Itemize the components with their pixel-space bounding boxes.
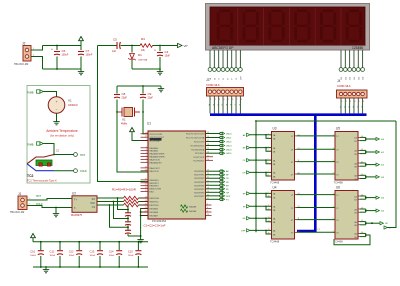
svg-text:37: 37 bbox=[145, 184, 147, 186]
wire U6 output pair bbox=[360, 232, 366, 234]
svg-text:24: 24 bbox=[207, 152, 209, 154]
wire caps to ground rail bbox=[128, 235, 141, 237]
svg-text:C9: C9 bbox=[148, 92, 152, 96]
svg-text:11: 11 bbox=[298, 160, 300, 162]
svg-text:28: 28 bbox=[207, 187, 209, 189]
svg-text:C1=C2=C3=1nF: C1=C2=C3=1nF bbox=[144, 224, 166, 228]
svg-text:100nF: 100nF bbox=[69, 255, 75, 257]
svg-text:(for emulation only): (for emulation only) bbox=[50, 133, 74, 137]
svg-text:25: 25 bbox=[207, 155, 209, 157]
wire input split bbox=[250, 229, 272, 231]
svg-text:HOT: HOT bbox=[36, 196, 41, 198]
svg-text:15: 15 bbox=[145, 190, 147, 192]
svg-text:100nF: 100nF bbox=[50, 255, 56, 257]
svg-text:10: 10 bbox=[361, 174, 363, 176]
svg-text:24: 24 bbox=[145, 200, 147, 202]
svg-text:J2: J2 bbox=[22, 42, 26, 46]
wire top rail drivers bbox=[256, 120, 396, 122]
capacitor C13 bbox=[99, 242, 101, 250]
wire J1 to U2 T- bbox=[27, 206, 72, 208]
svg-text:TC4468: TC4468 bbox=[270, 180, 280, 184]
svg-text:10: 10 bbox=[361, 232, 363, 234]
svg-text:7: 7 bbox=[268, 171, 269, 173]
svg-text:7: 7 bbox=[146, 161, 147, 163]
svg-text:C5: C5 bbox=[113, 38, 117, 42]
svg-text:16: 16 bbox=[207, 136, 209, 138]
svg-text:14: 14 bbox=[298, 193, 300, 195]
svg-text:RB1/INT1: RB1/INT1 bbox=[150, 183, 160, 185]
svg-text:X1: X1 bbox=[122, 118, 126, 122]
svg-text:22pF: 22pF bbox=[148, 97, 154, 100]
decoupling rail top bbox=[33, 241, 148, 243]
svg-text:36: 36 bbox=[145, 181, 147, 183]
ground bottom bbox=[80, 69, 82, 72]
svg-text:27: 27 bbox=[145, 211, 147, 213]
svg-text:J4: J4 bbox=[337, 79, 341, 83]
wire bottom rail bbox=[43, 68, 82, 70]
svg-text:UP: UP bbox=[385, 223, 389, 225]
svg-text:U6: U6 bbox=[336, 186, 340, 190]
svg-text:RC4/SDI/SDA: RC4/SDI/SDA bbox=[191, 149, 205, 152]
ground decoupling bbox=[45, 266, 47, 268]
wire loop c2 bbox=[114, 202, 129, 219]
capacitor C1 bbox=[127, 206, 129, 213]
wire TAMB to V1 bbox=[43, 92, 56, 97]
svg-text:LED1: LED1 bbox=[226, 138, 232, 140]
power arrow top bbox=[80, 41, 82, 46]
U1 left pins bbox=[141, 132, 167, 217]
capacitor C15 bbox=[137, 242, 139, 250]
capacitor C12 bbox=[78, 242, 80, 250]
wire driver out to driver in bbox=[297, 207, 336, 209]
capacitor C10 bbox=[40, 242, 42, 250]
wire U5 output pair bbox=[360, 136, 366, 138]
svg-text:29: 29 bbox=[207, 191, 209, 193]
wire R1 to U1 bbox=[139, 197, 149, 199]
wire input split bbox=[250, 159, 272, 161]
svg-text:J3: J3 bbox=[206, 78, 210, 82]
svg-text:2: 2 bbox=[146, 146, 147, 148]
svg-text:TC4468: TC4468 bbox=[270, 239, 280, 243]
wire driver input rail bbox=[255, 121, 257, 232]
svg-text:27: 27 bbox=[207, 184, 209, 186]
wire U1 lower-left pins bbox=[141, 209, 148, 238]
thermocouple TC2 bbox=[27, 155, 57, 183]
svg-text:30: 30 bbox=[207, 194, 209, 196]
svg-text:RD5/PSP5: RD5/PSP5 bbox=[194, 189, 205, 191]
svg-text:14: 14 bbox=[145, 136, 147, 138]
svg-text:100nF: 100nF bbox=[86, 54, 93, 57]
capacitor C2 bbox=[127, 216, 129, 221]
svg-text:MCLR/Vpp: MCLR/Vpp bbox=[150, 141, 161, 143]
svg-text:RB7/PGD: RB7/PGD bbox=[150, 205, 160, 207]
svg-text:1N4733A: 1N4733A bbox=[138, 58, 148, 61]
svg-text:TC4469: TC4469 bbox=[334, 239, 344, 243]
svg-text:3: 3 bbox=[332, 148, 333, 150]
svg-text:RA0/AN0: RA0/AN0 bbox=[150, 147, 160, 150]
wire R3 to U1 bbox=[139, 204, 149, 206]
svg-text:11: 11 bbox=[361, 220, 363, 222]
wire input split bbox=[250, 192, 272, 194]
svg-text:35: 35 bbox=[145, 178, 147, 180]
svg-text:C12: C12 bbox=[69, 249, 74, 253]
wire X1 left leg to U1 bbox=[117, 112, 148, 172]
capacitor C7 bbox=[80, 46, 82, 51]
U1 internal glyph bbox=[181, 205, 197, 213]
svg-text:C10: C10 bbox=[30, 249, 35, 253]
svg-text:RD4/PSP4: RD4/PSP4 bbox=[194, 185, 205, 187]
svg-text:T+: T+ bbox=[74, 197, 78, 201]
svg-text:RA5/AN4/SS: RA5/AN4/SS bbox=[150, 161, 163, 164]
svg-text:RD1/PSP1: RD1/PSP1 bbox=[194, 175, 205, 177]
wire crystal top rail bbox=[117, 85, 161, 87]
svg-text:DPF: DPF bbox=[226, 196, 231, 198]
wire U2 SCK to R2 bbox=[97, 201, 124, 203]
svg-text:18: 18 bbox=[207, 144, 209, 146]
svg-text:MAX6675: MAX6675 bbox=[71, 214, 83, 217]
IC U3 TC4468 bbox=[270, 127, 295, 185]
svg-text:15: 15 bbox=[207, 132, 209, 134]
svg-text:14: 14 bbox=[361, 195, 363, 197]
resistor R1 bbox=[124, 196, 139, 200]
svg-text:RA1/AN1: RA1/AN1 bbox=[150, 150, 160, 153]
svg-text:11: 11 bbox=[361, 162, 363, 164]
svg-text:17: 17 bbox=[207, 140, 209, 142]
svg-text:RE0/AN5: RE0/AN5 bbox=[150, 208, 160, 211]
svg-text:RA7/CLKI: RA7/CLKI bbox=[150, 170, 160, 173]
wire input split bbox=[250, 147, 272, 149]
decoupling rail bottom bbox=[33, 266, 148, 268]
wire driver out to driver in bbox=[297, 219, 336, 221]
svg-text:RA3/AN3/VREF+: RA3/AN3/VREF+ bbox=[150, 156, 167, 159]
svg-text:21: 21 bbox=[207, 177, 209, 179]
display DS1 6-digit 7-segment bbox=[206, 4, 370, 51]
svg-text:RD7/PSP7: RD7/PSP7 bbox=[194, 196, 205, 198]
svg-text:38: 38 bbox=[145, 187, 147, 189]
svg-text:TC4468: TC4468 bbox=[334, 180, 344, 184]
svg-text:SO: SO bbox=[92, 199, 96, 201]
svg-text:LED2: LED2 bbox=[226, 142, 232, 144]
svg-text:5: 5 bbox=[268, 159, 269, 161]
resistor R2 bbox=[124, 200, 139, 204]
wire top rail bbox=[43, 45, 82, 47]
svg-text:TC2 Thermocouple Type K: TC2 Thermocouple Type K bbox=[27, 180, 57, 183]
svg-text:22: 22 bbox=[207, 180, 209, 182]
svg-text:LED5: LED5 bbox=[226, 153, 232, 155]
svg-text:RD2/PSP2: RD2/PSP2 bbox=[194, 178, 205, 180]
svg-text:1uF: 1uF bbox=[112, 50, 117, 53]
capacitor C8 bbox=[116, 86, 118, 94]
wire R4 to C4 node bbox=[153, 45, 161, 47]
svg-text:DPF: DPF bbox=[241, 230, 246, 232]
svg-text:13: 13 bbox=[268, 217, 270, 219]
ground V1 bbox=[56, 113, 58, 119]
svg-text:RA2/AN2/VREF-: RA2/AN2/VREF- bbox=[150, 153, 166, 156]
resistor R3 bbox=[124, 203, 139, 207]
svg-text:26: 26 bbox=[145, 207, 147, 209]
svg-text:1: 1 bbox=[332, 134, 333, 136]
IC U1 PIC18F452 bbox=[147, 122, 206, 224]
IC U6 TC4469 bbox=[334, 186, 359, 244]
wire U2 SO to R1 bbox=[97, 197, 124, 199]
svg-text:C11: C11 bbox=[50, 249, 55, 253]
zener diode D1 bbox=[128, 46, 147, 70]
svg-text:23: 23 bbox=[207, 148, 209, 150]
IC U5 TC4468 bbox=[334, 127, 359, 185]
resistor R4 bbox=[140, 44, 153, 48]
wire driver out to driver in bbox=[297, 135, 336, 137]
svg-text:SCK: SCK bbox=[90, 203, 95, 205]
svg-text:VP: VP bbox=[184, 44, 188, 48]
wire U6 output pair bbox=[360, 195, 366, 197]
svg-text:123456: 123456 bbox=[352, 46, 363, 50]
svg-text:5: 5 bbox=[207, 207, 208, 209]
display left pins bbox=[208, 50, 242, 80]
svg-text:G: G bbox=[236, 78, 238, 80]
IC U2 MAX6675 bbox=[71, 191, 97, 217]
svg-text:1: 1 bbox=[332, 193, 333, 195]
svg-text:LED4: LED4 bbox=[226, 150, 232, 152]
power arrow decoupling bbox=[31, 234, 36, 238]
wire driver out to driver in bbox=[297, 231, 336, 233]
svg-text:RB0/INT0: RB0/INT0 bbox=[150, 180, 160, 182]
svg-text:+: + bbox=[51, 48, 53, 52]
svg-text:D1: D1 bbox=[138, 53, 142, 57]
wire main rail bbox=[98, 45, 118, 47]
capacitor C5 (series, horizontal) bbox=[112, 38, 120, 53]
svg-text:LED3: LED3 bbox=[226, 146, 232, 148]
wire J1 to U2 T+ bbox=[27, 199, 72, 201]
U1 right pins group2 bbox=[194, 170, 231, 202]
svg-text:C4: C4 bbox=[165, 50, 169, 54]
svg-text:C14: C14 bbox=[109, 249, 114, 253]
svg-text:25: 25 bbox=[145, 204, 147, 206]
svg-text:OSC1/CLKIN: OSC1/CLKIN bbox=[150, 134, 163, 136]
wire U5 output pair bbox=[360, 174, 366, 176]
crystal X1 bbox=[117, 108, 140, 126]
svg-text:26: 26 bbox=[207, 159, 209, 161]
svg-text:7: 7 bbox=[332, 173, 333, 175]
capacitor C14 bbox=[118, 242, 120, 250]
svg-text:CONN-SIL8: CONN-SIL8 bbox=[206, 84, 220, 87]
svg-text:RB3/CCP2B: RB3/CCP2B bbox=[150, 189, 162, 191]
svg-text:2: 2 bbox=[207, 204, 208, 206]
terminal TAMB lower bbox=[27, 142, 43, 147]
wire driver out to driver in bbox=[297, 161, 336, 163]
svg-text:ABCDEFG DP: ABCDEFG DP bbox=[212, 46, 234, 50]
svg-text:2: 2 bbox=[268, 137, 269, 139]
svg-text:TAMB: TAMB bbox=[27, 143, 34, 146]
svg-text:Ambient Temperature: Ambient Temperature bbox=[46, 129, 78, 133]
capacitor C9 bbox=[142, 86, 144, 94]
svg-text:DP: DP bbox=[240, 76, 242, 80]
svg-text:U3: U3 bbox=[273, 127, 277, 131]
svg-text:RD3/PSP3: RD3/PSP3 bbox=[194, 182, 205, 184]
svg-text:15: 15 bbox=[268, 229, 270, 231]
svg-text:100nF: 100nF bbox=[128, 255, 134, 257]
svg-text:C15: C15 bbox=[128, 249, 133, 253]
svg-text:4: 4 bbox=[268, 150, 269, 152]
wire input split bbox=[250, 171, 272, 173]
svg-text:1: 1 bbox=[146, 139, 147, 141]
svg-text:TC2: TC2 bbox=[27, 174, 34, 178]
svg-text:12: 12 bbox=[268, 209, 270, 211]
svg-text:8: 8 bbox=[268, 175, 269, 177]
svg-text:RA7/AN: RA7/AN bbox=[189, 210, 197, 213]
svg-text:U5: U5 bbox=[336, 127, 340, 131]
wire input split bbox=[250, 134, 272, 136]
terminal TAMB top bbox=[27, 90, 43, 95]
svg-text:+: + bbox=[154, 49, 156, 53]
wire input split bbox=[250, 205, 272, 207]
svg-text:9: 9 bbox=[268, 192, 269, 194]
svg-text:5: 5 bbox=[332, 218, 333, 220]
svg-text:RC6/TX/CK: RC6/TX/CK bbox=[193, 157, 204, 159]
capacitor C3 bbox=[127, 225, 129, 230]
svg-text:3: 3 bbox=[332, 206, 333, 208]
svg-text:R4: R4 bbox=[141, 37, 145, 41]
wire U5 output pair bbox=[360, 162, 366, 164]
svg-text:RD6/PSP6: RD6/PSP6 bbox=[194, 192, 205, 194]
wire U6 output pair bbox=[360, 208, 366, 210]
connector J2 bbox=[14, 42, 31, 66]
svg-text:1: 1 bbox=[268, 134, 269, 136]
wire J2 to rails bbox=[31, 46, 43, 51]
svg-text:U1: U1 bbox=[147, 122, 151, 126]
svg-text:5: 5 bbox=[146, 155, 147, 157]
svg-text:RA4/T0CKI: RA4/T0CKI bbox=[150, 158, 161, 161]
svg-text:10000mV: 10000mV bbox=[68, 105, 78, 107]
svg-text:13: 13 bbox=[298, 206, 300, 208]
wire OSC1 bbox=[116, 108, 118, 112]
svg-text:TBLOCK-M2: TBLOCK-M2 bbox=[14, 63, 29, 66]
svg-text:10: 10 bbox=[298, 173, 300, 175]
svg-text:13: 13 bbox=[361, 149, 363, 151]
svg-text:16: 16 bbox=[268, 233, 270, 235]
U1 right pins group1 bbox=[186, 132, 232, 162]
svg-text:HOT: HOT bbox=[80, 154, 86, 157]
wire driver out to driver in bbox=[297, 194, 336, 196]
svg-text:−: − bbox=[55, 108, 57, 112]
svg-text:CONN-SIL6: CONN-SIL6 bbox=[337, 85, 351, 88]
svg-text:11: 11 bbox=[298, 218, 300, 220]
svg-text:CS: CS bbox=[92, 207, 96, 209]
ground for D1/C4 bbox=[159, 69, 161, 72]
wire U6 loop bottom bbox=[334, 235, 370, 245]
svg-text:T-: T- bbox=[74, 206, 76, 210]
svg-text:100nF: 100nF bbox=[30, 255, 36, 257]
svg-text:5: 5 bbox=[332, 160, 333, 162]
svg-text:RC3/SCK/SCL: RC3/SCK/SCL bbox=[191, 146, 205, 148]
wire VP vertical rail bbox=[98, 46, 149, 182]
svg-text:4MHz: 4MHz bbox=[121, 122, 128, 125]
svg-text:7: 7 bbox=[332, 231, 333, 233]
svg-text:14: 14 bbox=[268, 221, 270, 223]
connector J4 bbox=[337, 79, 368, 113]
svg-text:RE2/AN7: RE2/AN7 bbox=[150, 215, 160, 218]
svg-text:C13: C13 bbox=[90, 249, 95, 253]
display right pins bbox=[339, 50, 365, 80]
wire C5 to R4 bbox=[121, 45, 140, 47]
connector J3 bbox=[206, 78, 244, 113]
svg-text:6: 6 bbox=[268, 162, 269, 164]
svg-text:RC2/CCP1: RC2/CCP1 bbox=[194, 142, 205, 144]
svg-text:RA6/AN: RA6/AN bbox=[189, 206, 197, 209]
svg-text:14: 14 bbox=[298, 134, 300, 136]
svg-text:29: 29 bbox=[207, 214, 209, 216]
svg-text:RB2/INT2: RB2/INT2 bbox=[150, 186, 160, 188]
wire driver out to driver in bbox=[297, 148, 336, 150]
svg-text:COLD: COLD bbox=[36, 204, 43, 206]
wire U5 output pair bbox=[360, 149, 366, 151]
svg-text:3: 3 bbox=[146, 149, 147, 151]
terminal COLD bbox=[54, 170, 74, 172]
svg-text:11: 11 bbox=[268, 205, 270, 207]
svg-text:10: 10 bbox=[268, 196, 270, 198]
wire U6 output pair bbox=[360, 221, 366, 223]
wire R2 to U1 bbox=[139, 201, 149, 203]
svg-text:LED0: LED0 bbox=[226, 134, 232, 136]
power arrow MCLR pullup bbox=[130, 128, 135, 132]
svg-text:32: 32 bbox=[207, 198, 209, 200]
svg-text:23: 23 bbox=[145, 197, 147, 199]
IC U4 TC4468 bbox=[270, 186, 295, 244]
svg-text:PIC18F452: PIC18F452 bbox=[152, 219, 167, 223]
wire zener gnd rail bbox=[132, 68, 160, 70]
wire driver out to driver in bbox=[297, 173, 336, 175]
connector J1 bbox=[10, 192, 27, 214]
wire input split bbox=[250, 217, 272, 219]
wire OSC2 bbox=[142, 108, 144, 112]
svg-text:10: 10 bbox=[298, 231, 300, 233]
svg-text:RE1/AN6: RE1/AN6 bbox=[150, 211, 160, 214]
wire U6 out3 to UP terminal bbox=[366, 222, 380, 224]
svg-text:3: 3 bbox=[268, 146, 269, 148]
svg-text:14: 14 bbox=[361, 136, 363, 138]
svg-text:C7: C7 bbox=[86, 49, 90, 53]
bus horizontal bbox=[210, 113, 367, 116]
svg-text:RD0/PSP0: RD0/PSP0 bbox=[194, 171, 205, 173]
svg-text:13: 13 bbox=[298, 148, 300, 150]
ground tap U2 T- bbox=[55, 207, 57, 209]
svg-text:20: 20 bbox=[207, 173, 209, 175]
svg-text:100nF: 100nF bbox=[90, 255, 96, 257]
bus vertical bbox=[297, 115, 315, 231]
wire right rail VP bbox=[384, 121, 396, 228]
svg-text:RC1/T1OSI/CCP2A: RC1/T1OSI/CCP2A bbox=[186, 137, 205, 140]
ambient emulator box bbox=[27, 86, 90, 184]
svg-text:100nF: 100nF bbox=[109, 255, 115, 257]
svg-text:13: 13 bbox=[361, 208, 363, 210]
svg-text:19: 19 bbox=[207, 170, 209, 172]
svg-text:10uF: 10uF bbox=[165, 55, 171, 58]
wire U2 CS to R3 bbox=[97, 204, 124, 206]
svg-text:V1: V1 bbox=[68, 99, 72, 103]
svg-text:+: + bbox=[55, 100, 57, 104]
svg-text:4: 4 bbox=[146, 152, 147, 154]
svg-text:RB5/PGM: RB5/PGM bbox=[150, 198, 160, 200]
svg-text:RA6/OSC2: RA6/OSC2 bbox=[150, 167, 161, 170]
svg-text:13: 13 bbox=[145, 132, 147, 134]
terminal VP bbox=[160, 45, 178, 47]
svg-text:RC0/T1OSO/T1CKI: RC0/T1OSO/T1CKI bbox=[186, 134, 205, 136]
wire loop c1 bbox=[118, 198, 129, 210]
svg-text:U2: U2 bbox=[72, 191, 76, 195]
svg-text:22pF: 22pF bbox=[122, 97, 128, 100]
ground RC network bbox=[140, 237, 142, 240]
svg-text:C8: C8 bbox=[122, 92, 126, 96]
svg-text:COLD: COLD bbox=[80, 170, 87, 173]
